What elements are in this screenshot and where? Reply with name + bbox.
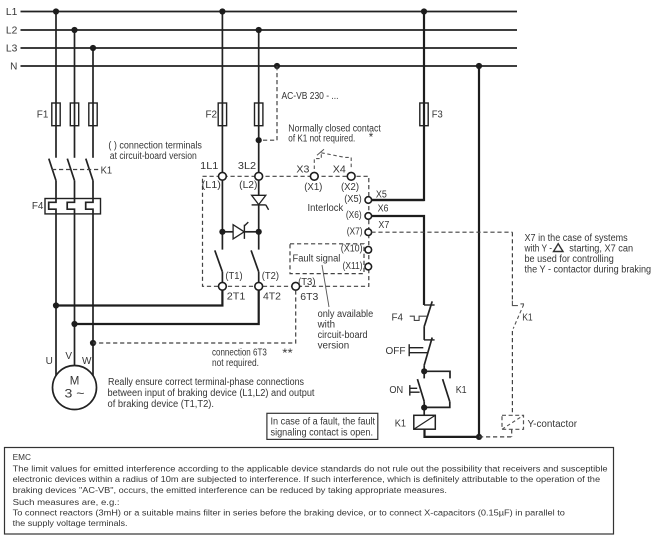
bus L2 — [6, 26, 517, 37]
svg-text:Such measures are, e.g.:: Such measures are, e.g.: — [13, 497, 120, 507]
node L1 tap — [53, 8, 59, 14]
wire coil to N — [425, 429, 480, 437]
svg-text:at circuit-board version: at circuit-board version — [110, 151, 197, 162]
contact K1 aux — [424, 371, 467, 407]
note normally closed contact — [288, 124, 381, 145]
label connection 6T3 — [212, 346, 293, 369]
node coil N junction — [476, 434, 482, 440]
wire phase U drop — [55, 12, 57, 158]
svg-text:EMC: EMC — [13, 452, 31, 462]
contact T1 — [215, 250, 243, 282]
svg-text:*: * — [369, 132, 374, 144]
EMC note box — [5, 448, 614, 535]
svg-text:of braking device (T1,T2).: of braking device (T1,T2). — [108, 399, 215, 410]
svg-text:(X2): (X2) — [341, 182, 359, 193]
wire X6 to control — [371, 216, 424, 305]
terminal X7 — [347, 220, 390, 237]
fuse F3 — [420, 12, 443, 126]
svg-text:W: W — [82, 356, 92, 367]
node N tap — [274, 63, 280, 69]
node N dashed junction — [256, 137, 262, 143]
svg-text:F4: F4 — [392, 313, 404, 324]
svg-text:braking devices "AC-VB", occur: braking devices "AC-VB", occurs, the emi… — [13, 485, 447, 495]
svg-text:L1: L1 — [6, 7, 18, 18]
svg-text:Fault signal: Fault signal — [293, 253, 341, 264]
svg-text:(X11): (X11) — [343, 261, 363, 272]
svg-text:6T3: 6T3 — [300, 292, 319, 303]
svg-text:X4: X4 — [333, 164, 347, 175]
svg-text:F1: F1 — [37, 109, 49, 120]
svg-text:between input of braking devic: between input of braking device (L1,L2) … — [108, 388, 315, 399]
svg-text:U: U — [46, 356, 53, 367]
svg-text:( ) connection terminals: ( ) connection terminals — [108, 140, 202, 151]
svg-text:signaling contact is open.: signaling contact is open. — [271, 427, 374, 438]
svg-text:F2: F2 — [206, 109, 218, 120]
wire X7 dashed riser — [511, 232, 513, 301]
svg-text:(X1): (X1) — [304, 182, 322, 193]
svg-text:(X5): (X5) — [344, 194, 362, 205]
node V junction — [71, 321, 77, 327]
svg-text:OFF: OFF — [386, 346, 406, 357]
svg-text:(X7): (X7) — [347, 226, 363, 237]
node L1 tap F3 — [421, 8, 427, 14]
svg-text:Y-contactor: Y-contactor — [528, 419, 578, 430]
wire OFF to ON — [423, 365, 425, 378]
wire dashed to Y contactor — [511, 331, 513, 415]
svg-text:4T2: 4T2 — [263, 292, 281, 303]
svg-text:not required.: not required. — [212, 358, 259, 369]
note connection terminals — [108, 140, 202, 162]
motor M1 — [46, 351, 97, 410]
svg-text:**: ** — [282, 346, 293, 360]
fuse F2 — [206, 103, 263, 126]
svg-text:To connect reactors (3mH) or a: To connect reactors (3mH) or a suitable … — [13, 507, 565, 517]
svg-text:1L1: 1L1 — [200, 161, 218, 172]
svg-text:version: version — [318, 340, 350, 351]
note only available — [317, 309, 374, 352]
node W junction — [90, 340, 96, 346]
fuse F1 — [37, 103, 97, 126]
svg-text:with: with — [317, 319, 335, 330]
svg-text:F3: F3 — [432, 109, 443, 120]
svg-text:of K1 not required.: of K1 not required. — [288, 134, 355, 145]
contact K1 dashed for Y — [512, 301, 533, 329]
pushbutton ON — [389, 379, 424, 401]
terminal 1L1 — [200, 161, 226, 191]
svg-text:the supply voltage terminals.: the supply voltage terminals. — [13, 518, 128, 528]
fault signal box — [290, 244, 364, 274]
svg-text:Really ensure correct terminal: Really ensure correct terminal-phase con… — [108, 377, 304, 388]
svg-text:2T1: 2T1 — [227, 292, 246, 303]
svg-text:3L2: 3L2 — [238, 161, 256, 172]
wire pole3 through overload — [86, 181, 93, 376]
wire ON to coil — [423, 401, 425, 415]
svg-text:connection 6T3: connection 6T3 — [212, 347, 267, 358]
svg-text:X7 in the case of systems: X7 in the case of systems — [525, 233, 628, 244]
braking device box AC-VB — [203, 176, 369, 286]
wire 3L2 internal — [258, 180, 260, 195]
svg-text:K1: K1 — [522, 312, 533, 323]
node L2 tap — [71, 27, 77, 33]
terminal 2T1 — [219, 282, 246, 302]
contact F4 NC control — [392, 301, 435, 326]
wire phase V drop — [74, 30, 76, 158]
svg-text:(X10): (X10) — [341, 244, 363, 255]
wire 6T3 dashed to motor W — [93, 290, 296, 343]
terminal 4T2 — [255, 282, 281, 302]
svg-text:be used for controlling: be used for controlling — [525, 254, 614, 265]
wire F2 drop from L2 — [258, 30, 260, 172]
thyristor V2 horizontal — [222, 222, 258, 239]
svg-text:circuit-board: circuit-board — [318, 330, 368, 341]
node N tap control — [476, 63, 482, 69]
svg-text:K1: K1 — [456, 385, 467, 396]
terminal X6 — [346, 204, 389, 221]
svg-text:F4: F4 — [32, 201, 44, 212]
wire between F4 and OFF — [423, 327, 425, 340]
Y-contactor coil — [479, 415, 578, 437]
svg-text:3 ~: 3 ~ — [65, 389, 85, 401]
wire X7 dashed — [371, 231, 512, 233]
svg-text:starting, X7 can: starting, X7 can — [569, 243, 633, 254]
svg-text:N: N — [10, 61, 17, 72]
node L2 tap F2 — [256, 27, 262, 33]
wire F3 to X5 — [371, 126, 424, 200]
contactor K1 main contacts — [49, 159, 113, 181]
svg-text:V: V — [65, 351, 72, 362]
note in case of fault box — [267, 413, 378, 439]
svg-text:ON: ON — [389, 385, 403, 396]
wire pole2 through overload — [67, 181, 74, 366]
node L3 tap — [90, 45, 96, 51]
svg-text:(L2): (L2) — [239, 180, 257, 191]
svg-text:only available: only available — [318, 309, 374, 320]
wire N drop control — [478, 66, 480, 437]
node thyristor right — [256, 229, 262, 235]
node U junction — [53, 302, 59, 308]
terminal X3 — [296, 164, 322, 193]
svg-text:electronic devices within a ra: electronic devices within a radius of 10… — [13, 474, 601, 484]
node above coil — [421, 405, 427, 411]
pushbutton OFF — [386, 338, 435, 366]
svg-text:(L1): (L1) — [202, 180, 221, 191]
thyristor V1 — [252, 195, 269, 249]
leader fault to note — [322, 265, 329, 307]
svg-text:the Y - contactor during braki: the Y - contactor during braking — [525, 265, 652, 276]
node above ON — [421, 368, 427, 374]
overload relay F4 — [32, 199, 101, 214]
svg-text:(T2): (T2) — [262, 271, 279, 282]
contact T2 — [251, 250, 279, 282]
svg-text:The limit values for emitted i: The limit values for emitted interferenc… — [13, 463, 608, 473]
svg-text:X5: X5 — [376, 189, 387, 200]
wire 4T2 to motor V — [75, 290, 259, 324]
terminal X5 — [344, 189, 387, 205]
wire 2T1 to motor U — [56, 290, 222, 305]
terminal 6T3 — [292, 277, 319, 303]
svg-text:K1: K1 — [101, 165, 113, 176]
terminal 3L2 — [238, 161, 263, 191]
svg-text:X7: X7 — [378, 220, 389, 231]
svg-text:(X6): (X6) — [346, 210, 362, 221]
bus L3 — [6, 44, 517, 55]
svg-text:(T3): (T3) — [298, 277, 315, 288]
node thyristor left — [219, 229, 225, 235]
svg-text:AC-VB 230 - ...: AC-VB 230 - ... — [282, 91, 339, 102]
bus N — [10, 61, 517, 72]
contact K1 NC dashed above X3 X4 — [314, 149, 351, 169]
svg-text:with Y -: with Y - — [524, 243, 552, 254]
wire X5 stub — [371, 199, 424, 201]
wire 1L1 internal — [221, 180, 223, 249]
terminal X11 — [343, 261, 372, 272]
svg-text:(T1): (T1) — [225, 271, 242, 282]
note X7 systems — [524, 233, 651, 276]
terminal X10 — [341, 244, 372, 255]
coil K1 — [395, 415, 436, 429]
node L1 tap F2 — [219, 8, 225, 14]
wire pole1 through overload — [49, 181, 56, 376]
svg-text:K1: K1 — [395, 419, 407, 430]
terminal X4 — [333, 164, 359, 193]
wire N dashed to device — [259, 66, 277, 140]
svg-text:X6: X6 — [378, 204, 389, 215]
wire F2 drop from L1 — [221, 12, 223, 173]
wire phase W drop — [92, 48, 94, 158]
svg-text:X3: X3 — [296, 164, 310, 175]
bus L1 — [6, 7, 517, 18]
svg-text:Interlock: Interlock — [308, 203, 344, 214]
svg-text:L2: L2 — [6, 26, 18, 37]
svg-text:In case of a fault, the fault: In case of a fault, the fault — [271, 416, 376, 427]
note really ensure — [108, 377, 315, 410]
svg-text:L3: L3 — [6, 44, 18, 55]
svg-text:M: M — [70, 376, 80, 388]
